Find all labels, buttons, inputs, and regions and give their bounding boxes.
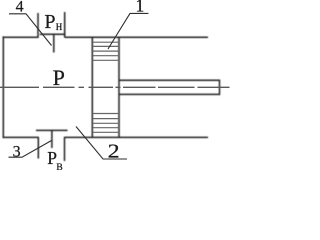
svg-text:В: В: [56, 163, 62, 170]
cylinder bottom edge right segment: [64, 136, 208, 138]
hatch line h5: [93, 59, 118, 61]
svg-text:1: 1: [136, 0, 145, 16]
piston right edge: [118, 37, 120, 137]
bottom port left pipe stub: [37, 137, 39, 158]
cylinder top edge left segment: [3, 36, 39, 38]
rod bottom edge: [119, 93, 220, 95]
svg-text:P: P: [53, 65, 65, 90]
svg-text:3: 3: [13, 143, 21, 160]
cylinder bottom edge left segment: [3, 136, 39, 138]
hatch line h8: [93, 122, 118, 124]
hatch line h4: [93, 55, 118, 57]
hatch line h2: [93, 45, 118, 47]
top port left pipe stub: [37, 13, 39, 38]
leader line for label 2: [76, 127, 127, 160]
svg-text:Н: Н: [56, 22, 63, 32]
hatch line h7: [93, 118, 118, 120]
bottom port stem: [51, 130, 53, 148]
top port stem: [53, 34, 55, 52]
leader line for label 4: [9, 14, 52, 46]
rod top edge: [119, 79, 220, 81]
axis centerline: [0, 86, 230, 88]
top port bar: [40, 33, 66, 35]
top port right pipe stub: [64, 12, 66, 38]
hatch line h9: [93, 127, 118, 129]
cylinder left wall: [2, 36, 4, 138]
svg-text:2: 2: [108, 141, 120, 163]
svg-text:P: P: [44, 11, 55, 33]
hatch line h10: [93, 131, 118, 133]
piston hatching: [93, 42, 118, 132]
rod right end: [219, 80, 221, 96]
piston left edge: [91, 37, 93, 137]
hatch line h6: [93, 113, 118, 115]
bottom port right pipe stub: [64, 137, 66, 161]
svg-text:4: 4: [16, 0, 24, 15]
hatch line h1: [93, 41, 118, 43]
cylinder top edge right segment: [65, 36, 208, 38]
leader line for label 3: [9, 141, 52, 158]
hatch line h3: [93, 50, 118, 52]
bottom port bar: [36, 129, 68, 131]
leader line for label 1: [108, 13, 148, 49]
